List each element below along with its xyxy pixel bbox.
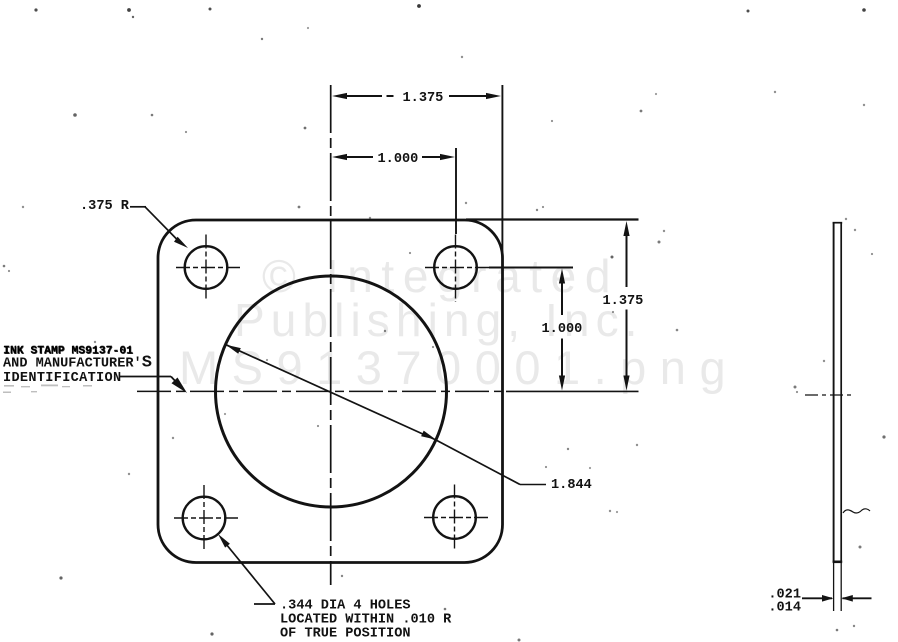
- side view squiggle mark: [843, 509, 870, 513]
- hole top-left: [185, 246, 228, 289]
- svg-text:OF TRUE POSITION: OF TRUE POSITION: [280, 627, 411, 642]
- ink smudge marks under identification: [3, 385, 92, 394]
- svg-text:1.000: 1.000: [542, 322, 583, 337]
- gasket plate outline: [158, 220, 503, 563]
- extension line right edge of plate up: [501, 85, 503, 258]
- svg-text:1.000: 1.000: [378, 152, 419, 167]
- vertical centerline of plate: [330, 85, 332, 585]
- extension line top-right hole to right: [489, 267, 573, 269]
- svg-text:1.375: 1.375: [603, 294, 644, 309]
- hole bottom-left: [183, 497, 226, 540]
- extension line top edge of plate to right: [466, 218, 639, 220]
- centerline cross hole bottom-left: [174, 485, 239, 552]
- dimension 1.000 horizontal top: [346, 156, 442, 158]
- centerline cross hole top-left: [176, 235, 241, 302]
- centerline cross hole bottom-right: [424, 485, 489, 552]
- side view top cap: [833, 222, 843, 224]
- center hole circle 1.844 dia: [216, 276, 447, 507]
- leader .344 dia holes: [254, 603, 275, 605]
- leader .375 R: [130, 206, 146, 208]
- side view extension lines down: [833, 562, 835, 611]
- side view bottom cap: [833, 560, 843, 563]
- horizontal centerline of plate: [137, 390, 506, 392]
- dimension 1.375 vertical right: [626, 235, 628, 377]
- side view left face line: [833, 223, 835, 563]
- svg-text:.014: .014: [768, 601, 801, 616]
- svg-text:.344 DIA 4 HOLES: .344 DIA 4 HOLES: [280, 599, 411, 614]
- svg-text:LOCATED WITHIN .010 R: LOCATED WITHIN .010 R: [280, 613, 452, 628]
- svg-text:MS91370001.png: MS91370001.png: [179, 341, 739, 394]
- diameter leader 1.844 diagonal: [226, 345, 436, 440]
- svg-text:1.375: 1.375: [403, 91, 444, 106]
- dimension 1.375 horizontal top: [346, 95, 488, 97]
- dimension 1.000 vertical right: [561, 281, 563, 377]
- leader ink stamp identification: [120, 376, 172, 378]
- svg-text:IDENTIFICATION: IDENTIFICATION: [3, 371, 121, 386]
- hole bottom-right: [433, 496, 476, 539]
- svg-text:.375 R: .375 R: [80, 199, 130, 214]
- hole top-right: [434, 246, 477, 289]
- svg-text:1.844: 1.844: [551, 478, 592, 493]
- side view right face line: [840, 223, 842, 562]
- dimension .021/.014 thickness: [802, 597, 832, 599]
- svg-text:Publishing, Inc.: Publishing, Inc.: [234, 294, 644, 346]
- svg-text:INK STAMP MS9137-01: INK STAMP MS9137-01: [3, 345, 133, 357]
- side view centerline: [805, 394, 853, 396]
- svg-text:AND MANUFACTURER'S: AND MANUFACTURER'S: [3, 353, 152, 372]
- extension line top-right hole up: [455, 148, 457, 234]
- centerline cross hole top-right: [425, 235, 489, 303]
